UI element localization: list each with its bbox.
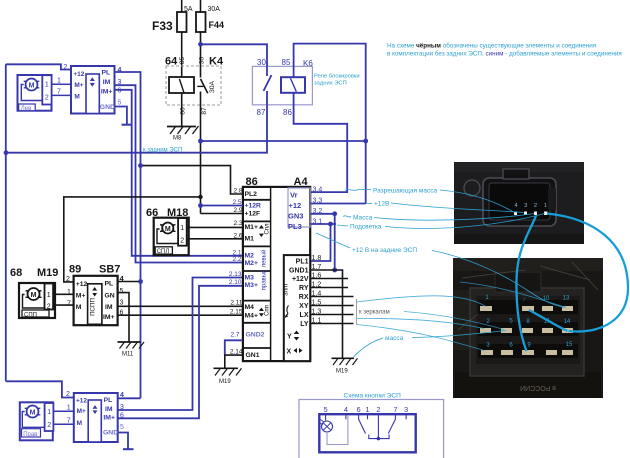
svg-text:Подсветка: Подсветка	[350, 224, 382, 231]
svg-text:M2+: M2+	[245, 260, 258, 267]
right front window module: motor Прав	[20, 402, 54, 440]
svg-text:5: 5	[120, 288, 124, 295]
svg-text:2.5: 2.5	[232, 199, 241, 206]
svg-text:5: 5	[120, 424, 124, 431]
86 left column rows	[245, 191, 261, 359]
svg-text:Vr: Vr	[290, 191, 298, 200]
svg-text:86: 86	[283, 108, 292, 117]
svg-text:7: 7	[57, 89, 61, 96]
svg-text:M19: M19	[37, 267, 58, 279]
svg-text:Реле блокировки: Реле блокировки	[314, 74, 360, 80]
wires Лев motor to switch (1,7)	[52, 78, 71, 96]
svg-text:M19: M19	[219, 379, 231, 385]
wire K6-87 to front power bus / к задним ЭСП	[4, 105, 267, 155]
svg-text:SB7: SB7	[99, 264, 120, 276]
svg-text:GN: GN	[105, 293, 115, 300]
wire Прав PL(4) to PL bus	[118, 397, 141, 399]
wire 2.5 +12R from +12 vertical	[198, 199, 243, 208]
svg-text:в комплектации без задних ЭСП,: в комплектации без задних ЭСП, синим - д…	[387, 49, 622, 57]
wire M18-2 to M1 (2.6)	[187, 232, 243, 239]
K6 contact 30-87	[264, 66, 272, 104]
svg-text:СПЛ: СПЛ	[157, 249, 170, 255]
svg-text:7: 7	[67, 301, 71, 308]
svg-text:LY: LY	[300, 321, 309, 328]
svg-text:85: 85	[282, 58, 291, 67]
svg-text:2: 2	[45, 95, 49, 102]
svg-text:+12V: +12V	[292, 276, 309, 283]
svg-text:RX: RX	[299, 294, 309, 301]
svg-text:30: 30	[257, 58, 266, 67]
wire Лев IM+(6) down to M2	[115, 90, 243, 256]
svg-text:+12: +12	[289, 201, 302, 210]
wire M18-1 to M1+ (2.3)	[187, 220, 243, 227]
wire Лев IM(3) down to M2+	[115, 85, 243, 262]
wire 2.14 GN1 to ground M19	[225, 349, 243, 368]
wires M19 to SB7 (1,7)	[53, 294, 74, 305]
wire K6-85 coil stub	[293, 66, 295, 77]
svg-text:LX: LX	[300, 312, 309, 319]
svg-text:1: 1	[180, 225, 184, 232]
wire 3.3 +12 stub	[310, 203, 366, 205]
svg-text:M1+: M1+	[245, 224, 258, 231]
svg-text:F33: F33	[152, 19, 173, 33]
svg-text:2.3: 2.3	[233, 220, 242, 227]
svg-text:64: 64	[165, 56, 178, 68]
rocker arrows + Спп label (M4 rows)	[259, 305, 270, 317]
switch SB7 (89) ПСПП	[66, 264, 125, 326]
svg-text:68: 68	[10, 267, 22, 279]
svg-text:СПП: СПП	[24, 312, 37, 318]
svg-text:1: 1	[57, 78, 61, 85]
к зеркалам bracket	[357, 299, 390, 325]
svg-text:86: 86	[246, 176, 258, 188]
svg-text:K6: K6	[303, 59, 313, 68]
svg-text:K4: K4	[209, 56, 224, 68]
svg-text:задних ЭСП: задних ЭСП	[314, 81, 347, 87]
photo of 15-pin connector block (bottom right)	[453, 258, 603, 398]
annotation масса	[354, 331, 507, 358]
svg-text:85: 85	[179, 57, 186, 65]
svg-text:M+: M+	[76, 293, 86, 300]
svg-text:IM+: IM+	[101, 88, 113, 95]
svg-text:+12: +12	[73, 71, 84, 78]
wire GN3 link down to GND1	[332, 214, 337, 273]
svg-text:IM: IM	[105, 406, 113, 413]
wire +12F feed to SB7 (+12 in)	[64, 195, 203, 282]
labels 2.1 / 2.2 (M2 rows)	[232, 249, 241, 263]
thick cyan segment pin8 to pin14	[529, 310, 568, 331]
ground M19 (left)	[214, 368, 242, 385]
svg-text:ПСПП: ПСПП	[90, 298, 97, 316]
svg-text:M: M	[30, 409, 36, 416]
svg-text:7: 7	[393, 405, 397, 414]
svg-text:2: 2	[376, 405, 380, 414]
svg-text:1: 1	[544, 203, 547, 209]
motor M19 (68) СПП	[10, 267, 58, 318]
svg-text:+12В: +12В	[374, 201, 389, 208]
svg-text:2.11: 2.11	[230, 299, 243, 306]
svg-text:3: 3	[404, 405, 408, 414]
K6 coil	[281, 77, 305, 93]
svg-text:M19: M19	[336, 369, 348, 375]
svg-text:89: 89	[69, 264, 81, 276]
relay K4 (64) dashed box	[165, 56, 224, 115]
svg-text:Схема кнопки ЭСП: Схема кнопки ЭСП	[344, 393, 402, 400]
svg-text:M: M	[165, 226, 171, 233]
svg-text:Y: Y	[287, 334, 292, 341]
svg-text:1: 1	[47, 409, 51, 416]
photo of 4-pin connector (top right)	[454, 162, 584, 244]
svg-text:13: 13	[563, 296, 570, 302]
svg-text:2.9: 2.9	[233, 207, 242, 214]
wire SB7 IM(3) to M4 (2.11)	[118, 299, 243, 306]
svg-text:2: 2	[534, 203, 537, 209]
svg-text:PL2: PL2	[245, 191, 258, 198]
svg-text:PL: PL	[102, 70, 111, 77]
svg-text:Прав: Прав	[23, 432, 37, 438]
wire Прав IM(3) up to M3 (2.13)	[118, 278, 243, 411]
+12 net line from K4-87 (y141)	[198, 139, 368, 144]
wire SB7 PL(4) to PL bus	[118, 279, 143, 284]
svg-text:30: 30	[199, 57, 206, 65]
fuse F33 5A	[152, 0, 193, 77]
svg-text:M4+: M4+	[245, 312, 258, 319]
svg-text:в РОССИИ: в РОССИИ	[520, 384, 556, 391]
svg-text:1.8: 1.8	[312, 255, 322, 262]
pin numbers 1.x	[312, 255, 322, 325]
wire K6-86 to A4 Vr (3.4)	[294, 93, 348, 192]
svg-text:левый: левый	[261, 250, 268, 268]
svg-text:масса: масса	[385, 335, 404, 342]
motor M18 (66) СПЛ	[146, 207, 189, 255]
svg-text:1: 1	[47, 292, 51, 299]
Лев pin strip 1/2	[42, 75, 51, 104]
svg-text:5: 5	[324, 405, 328, 414]
svg-text:30A: 30A	[208, 6, 221, 13]
svg-text:2.10: 2.10	[229, 279, 242, 286]
note text top right	[387, 42, 622, 58]
svg-text:+12F: +12F	[245, 211, 261, 218]
svg-text:PL1: PL1	[296, 258, 309, 265]
svg-text:GND1: GND1	[289, 267, 309, 274]
svg-text:14: 14	[564, 319, 571, 325]
svg-text:2.8: 2.8	[233, 188, 242, 195]
svg-text:M1: M1	[245, 236, 255, 243]
left +12 bus vertical	[5, 64, 7, 381]
svg-text:На схеме чёрным обозначены су: На схеме чёрным обозначены существующие …	[387, 42, 596, 50]
wire +12 feed into Прав switch	[6, 381, 74, 397]
svg-text:2.7: 2.7	[230, 331, 239, 338]
svg-text:Зл/п: Зл/п	[284, 284, 290, 296]
wire SB7 IM+(6) to M4+ (2.15)	[118, 308, 243, 315]
svg-text:2.15: 2.15	[230, 308, 243, 315]
svg-text:2.6: 2.6	[233, 232, 242, 239]
svg-text:IM+: IM+	[103, 414, 115, 421]
A4 Vr box	[288, 188, 310, 231]
svg-text:2: 2	[47, 422, 51, 429]
wire Прав GND(5) to chassis tick	[118, 433, 134, 450]
ground M19 (right of A4)	[332, 358, 358, 374]
svg-text:86: 86	[180, 107, 187, 115]
svg-text:к зеркалам: к зеркалам	[359, 310, 390, 316]
wire K4-86 to ground	[181, 93, 183, 126]
svg-text:1: 1	[67, 405, 71, 412]
svg-text:M11: M11	[122, 352, 134, 358]
svg-text:правый: правый	[261, 270, 268, 291]
svg-text:GND2: GND2	[246, 332, 265, 339]
lamp symbol	[322, 421, 333, 432]
левый label (M2 rows)	[261, 250, 268, 268]
wire 2.7 GND2 to ground M19	[225, 331, 243, 354]
svg-text:M: M	[77, 420, 82, 427]
svg-text:PL3: PL3	[288, 222, 302, 231]
svg-text:к задним ЭСП: к задним ЭСП	[143, 148, 182, 154]
svg-text:2.2: 2.2	[232, 256, 241, 263]
svg-text:2: 2	[180, 237, 184, 244]
wire SB7 GN(5) to ground M11	[118, 293, 129, 342]
wire 1.7 GND1 to ground M19 (right)	[310, 270, 342, 358]
svg-text:Спп: Спп	[264, 305, 270, 316]
annotation +12В	[366, 201, 524, 213]
svg-text:6: 6	[357, 405, 361, 414]
wire 2.8 PL2 from Лев PL bus	[138, 163, 243, 194]
thick cyan curve photo1 pin1 to photo2 pin14	[547, 214, 628, 332]
annotation lines to mirror pins (into photo2)	[357, 282, 566, 351]
left front switch block	[64, 64, 122, 114]
wire Лев PL(4) to PL bus	[115, 72, 141, 398]
fuse F44 30A	[196, 0, 224, 78]
svg-text:GN3: GN3	[288, 212, 303, 221]
labels 2.13 / 2.10 (M3 rows)	[229, 271, 242, 286]
wire +12 feed into Лев switch	[6, 64, 71, 69]
svg-text:87: 87	[257, 108, 266, 117]
svg-text:Лев: Лев	[21, 106, 31, 112]
svg-text:3.4: 3.4	[313, 187, 323, 194]
svg-text:Разрешающая масса: Разрешающая масса	[373, 188, 437, 195]
annotation +12 В на задние ЭСП	[316, 233, 565, 308]
svg-text:15: 15	[566, 342, 573, 348]
svg-text:M3: M3	[245, 274, 255, 281]
wire 2.9 +12F	[201, 207, 243, 214]
svg-text:+12: +12	[76, 398, 87, 405]
svg-text:+12R: +12R	[245, 203, 262, 210]
svg-text:M+: M+	[74, 82, 83, 89]
ground M8	[167, 126, 199, 142]
connector block 86 / controller A4 outer box	[243, 176, 310, 361]
правый label (M3 rows)	[261, 270, 268, 291]
svg-text:IM: IM	[105, 304, 113, 311]
svg-text:F44: F44	[209, 20, 225, 30]
annotation Подсветка	[337, 214, 545, 231]
wire Лев GND(5) to chassis tick	[115, 107, 133, 125]
wire K6-85 to +12 net	[294, 44, 366, 204]
svg-text:M2: M2	[245, 253, 255, 260]
svg-text:6: 6	[118, 88, 122, 95]
svg-text:4: 4	[344, 405, 348, 414]
svg-text:3: 3	[524, 203, 527, 209]
button schematic frame: Схема кнопки ЭСП	[299, 393, 444, 458]
svg-text:PL: PL	[104, 397, 113, 404]
svg-text:5A: 5A	[184, 6, 193, 13]
wires Прав motor to switch (1,7)	[53, 405, 73, 425]
wire K6-30 from F44 junction	[198, 42, 267, 67]
svg-text:+12 В на задние ЭСП: +12 В на задние ЭСП	[352, 247, 417, 254]
svg-text:5: 5	[118, 99, 122, 106]
svg-text:GND: GND	[100, 104, 115, 111]
svg-text:Масса: Масса	[353, 215, 373, 222]
svg-text:M: M	[76, 304, 82, 311]
svg-text:X: X	[287, 349, 292, 356]
svg-text:87: 87	[201, 107, 208, 115]
svg-text:1: 1	[45, 82, 49, 89]
svg-text:2.14: 2.14	[230, 349, 243, 356]
left front window module: motor Лев	[18, 75, 52, 112]
svg-text:M: M	[31, 292, 37, 299]
svg-text:M3+: M3+	[245, 282, 258, 289]
wire Прав IM+(6) up to M3+ (2.10)	[118, 286, 243, 419]
svg-text:2.13: 2.13	[229, 271, 242, 278]
pin numbers 3.4-3.1	[313, 187, 323, 226]
rocker arrows + Спл label (M1 rows)	[259, 223, 270, 237]
svg-text:2: 2	[47, 304, 51, 311]
svg-text:RY: RY	[299, 285, 309, 292]
K4 coil	[169, 77, 194, 93]
mirror stub wires 1.6,1.2,1.4,1.5,1.3,1.1	[310, 279, 353, 324]
svg-text:IM: IM	[103, 79, 111, 86]
svg-text:GND: GND	[103, 430, 118, 437]
svg-text:30A: 30A	[209, 80, 216, 93]
svg-text:M: M	[74, 93, 79, 100]
svg-text:M4: M4	[245, 304, 255, 311]
thick cyan curve photo1 pin2 to photo2 pin9	[516, 216, 536, 351]
svg-text:GN1: GN1	[246, 352, 260, 359]
svg-text:M+: M+	[77, 408, 86, 415]
svg-text:+12: +12	[76, 281, 88, 288]
svg-text:Спл: Спл	[264, 223, 270, 235]
wire K4-87 vertical down to +12F	[200, 92, 202, 214]
svg-text:3: 3	[120, 300, 124, 307]
wire 3.1 PL3 stub + link down to PL1	[310, 222, 336, 261]
svg-text:7: 7	[67, 417, 71, 424]
ground M11	[118, 342, 145, 358]
svg-text:PL: PL	[105, 281, 114, 288]
K4 contact 30-87	[197, 79, 208, 93]
annotation Разрешающая масса	[345, 188, 514, 213]
svg-text:M8: M8	[173, 136, 182, 142]
right front switch block	[66, 391, 124, 442]
annotation Масса	[343, 214, 534, 222]
svg-text:1: 1	[365, 405, 369, 414]
svg-text:XY: XY	[299, 303, 309, 310]
svg-text:4: 4	[118, 67, 122, 74]
A4 inner mirror-control block	[284, 255, 311, 361]
svg-text:A4: A4	[294, 176, 309, 188]
svg-text:M: M	[29, 82, 35, 89]
svg-text:IM+: IM+	[103, 314, 115, 321]
wire 3.2 GN3 stub	[310, 211, 337, 216]
relay K6 box	[252, 58, 359, 117]
